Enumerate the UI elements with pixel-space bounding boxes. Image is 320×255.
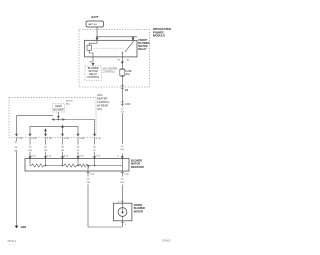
arrow into relay coil pin — [96, 37, 98, 40]
junction dot left feed — [96, 36, 98, 38]
ground G300 — [15, 226, 19, 229]
blower switch inner rail — [30, 126, 78, 136]
switch pin contacts at box edge — [16, 134, 96, 136]
svg-text:MODULE: MODULE — [153, 34, 165, 38]
arrow into relay contact pin — [132, 37, 134, 40]
ground wire code — [13, 141, 20, 152]
wire codes — [26, 144, 125, 152]
motor connector pin — [121, 200, 124, 202]
label FRONT BLOWER MOTOR RELAY — [138, 39, 149, 51]
wiper arm right — [58, 119, 64, 121]
svg-text:DG: DG — [121, 149, 125, 151]
off-page reference BLOWER MOTOR RELAY CONTROL dashed box — [85, 66, 101, 81]
svg-text:a b c d e f: a b c d e f — [8, 245, 16, 247]
junction dots on bus — [45, 165, 47, 167]
resistor bus — [30, 165, 122, 167]
svg-text:MOTOR: MOTOR — [134, 210, 143, 213]
wire feed into switch wiper — [58, 112, 60, 118]
svg-text:HEATER: HEATER — [97, 96, 107, 100]
note right of REAR BLOWER — [66, 101, 73, 106]
svg-text:(A/C-HEATER: (A/C-HEATER — [103, 67, 118, 70]
switch output wires to resistor — [30, 138, 95, 156]
svg-text:G300: G300 — [21, 227, 27, 229]
svg-text:C1: C1 — [125, 88, 129, 92]
svg-text:A/C): A/C) — [66, 102, 70, 105]
motor circle — [122, 203, 124, 207]
wire resistor output down — [88, 171, 122, 227]
blower motor resistor block box — [25, 159, 129, 172]
svg-text:BATT: BATT — [92, 15, 99, 19]
feed-through wire — [121, 159, 123, 172]
svg-text:5 C8: 5 C8 — [47, 138, 52, 140]
junction dot right feed — [132, 36, 134, 38]
wire feed down to motor — [121, 171, 123, 203]
svg-text:DG: DG — [121, 112, 125, 114]
A/C heater control dashed box — [9, 97, 96, 137]
wire down from IPM to resistor feed — [121, 87, 123, 144]
svg-text:40A: 40A — [125, 73, 130, 76]
wire codes below resistor — [85, 177, 126, 185]
off-page source REAR BLOWER dashed box — [53, 104, 65, 112]
front blower motor M1 box — [114, 203, 132, 221]
svg-text:(A/C-: (A/C- — [97, 93, 103, 97]
resistor R1 — [32, 164, 44, 167]
relay contact — [122, 40, 133, 57]
svg-text:CONTROL: CONTROL — [97, 100, 110, 104]
svg-text:CONTROL): CONTROL) — [103, 71, 115, 73]
svg-text:BATT A1: BATT A1 — [88, 23, 97, 26]
resistor block output pins — [87, 171, 124, 173]
wire code 12 DG — [119, 107, 125, 114]
resistor network — [30, 159, 95, 166]
motor ground pin — [121, 221, 124, 223]
svg-text:BLOWER: BLOWER — [54, 109, 64, 111]
svg-text:CONTROL: CONTROL — [87, 76, 100, 79]
svg-text:DG: DG — [28, 150, 32, 152]
fuse F7 — [121, 68, 125, 70]
blower switch right rail — [65, 120, 95, 137]
label BLOWER MOTOR RESISTOR — [131, 160, 144, 169]
label INTEGRATED POWER MODULE — [153, 27, 171, 38]
svg-text:TN: TN — [87, 182, 90, 184]
resistor R2 — [64, 164, 77, 167]
svg-text:7 C8: 7 C8 — [18, 138, 23, 140]
switch wiper pivot — [57, 119, 59, 121]
svg-text:DG: DG — [121, 182, 125, 184]
relay armature dashed link — [94, 47, 125, 49]
resistor R3 — [79, 164, 89, 167]
node BATT A1 feed box — [86, 21, 104, 27]
wire relay contact to fuse — [121, 57, 123, 64]
label FRONT BLOWER MOTOR — [134, 204, 145, 214]
resistor output to bottom edge — [87, 166, 89, 172]
svg-text:RELAY: RELAY — [138, 48, 147, 51]
svg-text:W/ REAR: W/ REAR — [97, 103, 108, 107]
svg-text:(W/ RR: (W/ RR — [66, 101, 73, 103]
wire relay coil return with arrow into reference — [92, 57, 94, 66]
svg-text:FUSE: FUSE — [125, 71, 132, 73]
wiper arm left — [52, 119, 58, 121]
svg-text:TN: TN — [44, 150, 47, 152]
svg-text:C200: C200 — [125, 104, 131, 106]
svg-text:4 C8: 4 C8 — [64, 138, 69, 140]
switch pin numbers — [18, 138, 102, 140]
svg-text:970842: 970842 — [162, 240, 171, 243]
Integrated Power Module dashed box — [79, 30, 150, 88]
reference note A/C-HEATER CONTROL — [103, 67, 118, 73]
svg-text:6 C8: 6 C8 — [32, 138, 37, 140]
svg-text:8W42-4: 8W42-4 — [8, 240, 17, 243]
ground wire from switch — [16, 138, 18, 226]
wire motor to return — [122, 221, 124, 227]
relay coil — [89, 40, 97, 45]
wire fuse to IPM connector — [121, 76, 123, 88]
relay pin numbers — [90, 59, 130, 63]
resistor block input pins — [29, 154, 123, 159]
inline connector C200 — [121, 102, 124, 104]
svg-text:RESISTOR: RESISTOR — [131, 166, 144, 169]
svg-text:REAR: REAR — [55, 105, 62, 108]
svg-text:3 C8: 3 C8 — [80, 138, 85, 140]
svg-text:2 C8: 2 C8 — [96, 138, 101, 140]
label A/C HEATER CONTROL — [97, 93, 110, 111]
connector C1 at IPM edge — [121, 86, 124, 88]
svg-text:A/C): A/C) — [97, 107, 102, 111]
relay U1 box — [85, 40, 138, 57]
switch contact posts — [45, 129, 47, 136]
wire from BATT box to relay feed rail — [97, 27, 137, 37]
blower switch S1 left rail — [17, 116, 54, 136]
